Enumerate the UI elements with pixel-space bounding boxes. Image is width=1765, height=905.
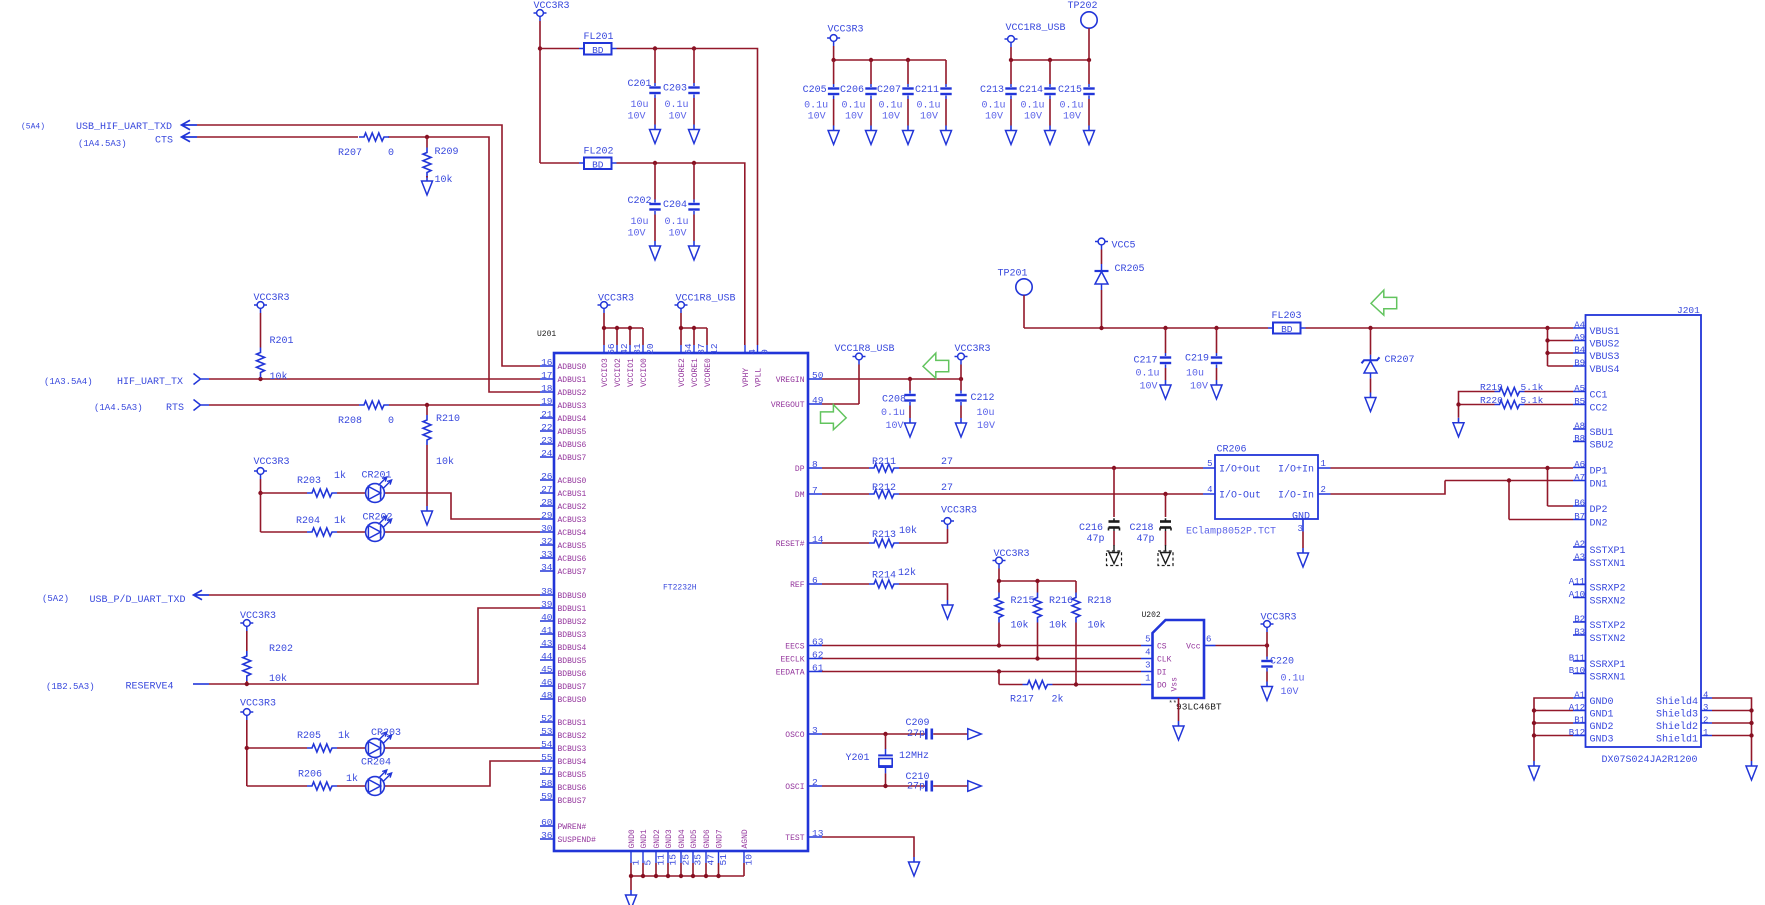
wire net EECS from U201 pin 63 to U202 CS — [822, 645, 1141, 647]
svg-text:1k: 1k — [346, 773, 358, 785]
svg-text:CR202: CR202 — [363, 513, 393, 524]
power symbol VCC3R3 above C205 group — [827, 35, 840, 46]
resistor R217 — [999, 672, 1141, 685]
svg-text:1: 1 — [1703, 728, 1708, 738]
ground below TEST — [909, 857, 920, 876]
svg-text:GND4: GND4 — [678, 829, 687, 848]
svg-text:56: 56 — [606, 343, 617, 355]
svg-text:29: 29 — [541, 510, 553, 521]
svg-text:ACBUS6: ACBUS6 — [558, 555, 587, 564]
svg-text:C219: C219 — [1185, 354, 1209, 365]
capacitor C209 — [926, 729, 932, 740]
svg-text:0: 0 — [388, 416, 394, 427]
svg-text:10u: 10u — [1186, 369, 1204, 380]
nodes on pullup rail — [997, 579, 1001, 583]
svg-text:BDBUS6: BDBUS6 — [558, 670, 587, 679]
svg-text:B1: B1 — [1574, 715, 1585, 725]
svg-text:BCBUS0: BCBUS0 — [558, 696, 587, 705]
nodes on ground bus — [629, 874, 633, 878]
svg-text:VBUS2: VBUS2 — [1590, 340, 1620, 351]
svg-text:VCC3R3: VCC3R3 — [828, 25, 864, 36]
svg-text:EEDATA: EEDATA — [776, 669, 805, 678]
wire net OSCO from U201 pin 3 — [822, 733, 968, 735]
wire CR206 GND pin to ground — [1302, 532, 1304, 549]
svg-text:21: 21 — [541, 409, 553, 420]
svg-text:R217: R217 — [1010, 695, 1034, 706]
power symbol VCC1R8_USB above VCORE pins — [675, 302, 688, 313]
nodes on VBUS line — [1099, 326, 1103, 330]
resistor R209 — [426, 137, 428, 148]
power symbol VCC5 — [1095, 238, 1108, 249]
svg-text:8: 8 — [812, 459, 818, 470]
svg-text:USB_HIF_UART_TXD: USB_HIF_UART_TXD — [76, 122, 172, 133]
svg-text:4: 4 — [1703, 690, 1708, 700]
U202 pin stubs left — [1141, 646, 1153, 685]
svg-text:SSTXP1: SSTXP1 — [1590, 546, 1626, 557]
svg-text:I/O+In: I/O+In — [1278, 464, 1314, 476]
svg-text:A12: A12 — [1569, 703, 1585, 713]
ESD clamp CR206 EClamp8052P.TCT — [1215, 455, 1318, 519]
connector J201 DX07S024JA2R1200 body — [1586, 315, 1702, 747]
node CC1/CC2 ground junction — [1456, 402, 1460, 406]
U201 bottom pin stubs — [631, 851, 744, 863]
svg-text:DO: DO — [1157, 682, 1167, 691]
svg-text:CTS: CTS — [155, 136, 173, 147]
svg-text:VBUS3: VBUS3 — [1590, 352, 1620, 363]
svg-text:12MHz: 12MHz — [899, 751, 929, 762]
off-page arrow CTS — [182, 132, 198, 141]
svg-text:SSRXP2: SSRXP2 — [1590, 584, 1626, 595]
svg-text:0.1u: 0.1u — [981, 101, 1005, 112]
svg-text:DM: DM — [795, 491, 805, 500]
svg-text:DP1: DP1 — [1590, 467, 1608, 478]
svg-text:10V: 10V — [1063, 112, 1081, 123]
svg-text:BCBUS1: BCBUS1 — [558, 719, 587, 728]
power symbol VCC3R3 above R213 — [941, 518, 954, 529]
power symbol VCC1R8_USB above VREGOUT — [853, 353, 866, 364]
svg-text:VCC3R3: VCC3R3 — [254, 457, 290, 468]
wire net through R206 CR204 to U201 pin 55 — [247, 761, 540, 786]
svg-text:R204: R204 — [296, 516, 320, 527]
svg-text:R215: R215 — [1011, 596, 1035, 607]
svg-text:VCC1R8_USB: VCC1R8_USB — [676, 294, 736, 305]
wire VCC3R3 to R205/R206 — [246, 720, 248, 786]
svg-text:VCC3R3: VCC3R3 — [240, 611, 276, 622]
svg-text:10V: 10V — [1139, 382, 1157, 393]
svg-text:58: 58 — [541, 778, 553, 789]
wire net REF from U201 pin 6 through R214 to ground — [822, 584, 948, 600]
svg-text:30: 30 — [541, 523, 553, 534]
wire net RESET# from U201 pin 14 through R213 to VCC3R3 — [822, 529, 948, 543]
svg-text:TP201: TP201 — [998, 269, 1028, 280]
svg-text:5: 5 — [1145, 635, 1150, 645]
svg-text:EECS: EECS — [785, 643, 804, 652]
svg-text:(1B2.5A3): (1B2.5A3) — [46, 682, 95, 692]
svg-text:33: 33 — [541, 549, 553, 560]
svg-text:CR203: CR203 — [371, 728, 401, 739]
wire net VBUS: TP201 through FL203 to J201 VBUS pins — [1024, 295, 1573, 328]
svg-text:ADBUS5: ADBUS5 — [558, 428, 587, 437]
svg-text:0.1u: 0.1u — [881, 408, 905, 419]
svg-text:C215: C215 — [1058, 85, 1082, 96]
svg-text:DN1: DN1 — [1590, 480, 1608, 491]
node C202 C204 junctions on FL202 net — [653, 161, 657, 165]
svg-text:41: 41 — [541, 625, 553, 636]
svg-text:CC1: CC1 — [1590, 391, 1608, 402]
svg-text:Vss: Vss — [1171, 677, 1180, 692]
svg-text:A2: A2 — [1574, 539, 1585, 549]
resistor R213 — [869, 539, 899, 547]
wire net VPLL-filter: FL201 output to U201 VPLL pin 9 — [540, 49, 758, 346]
capacitor C216 (DNI) — [1113, 468, 1115, 517]
svg-text:7: 7 — [812, 485, 818, 496]
svg-text:38: 38 — [541, 586, 553, 597]
svg-text:10k: 10k — [1011, 620, 1029, 632]
svg-text:19: 19 — [541, 396, 553, 407]
wire VCC3R3 to R203/R204 — [260, 479, 262, 532]
svg-text:EClamp8052P.TCT: EClamp8052P.TCT — [1186, 526, 1276, 538]
LED CR202 — [366, 516, 392, 541]
svg-text:B7: B7 — [1574, 512, 1585, 522]
svg-text:BDBUS5: BDBUS5 — [558, 657, 587, 666]
svg-text:CR206: CR206 — [1217, 445, 1247, 456]
svg-text:CR204: CR204 — [361, 758, 391, 769]
svg-text:37: 37 — [696, 343, 707, 354]
off-page arrow at VREGIN (left) — [923, 353, 949, 378]
wire net EEDATA from U201 pin 61 to U202 DI — [822, 671, 1141, 673]
nodes on VBUS branch — [1545, 338, 1549, 342]
svg-text:AGND: AGND — [741, 829, 750, 848]
node DP1/DP2 junction — [1545, 466, 1549, 470]
svg-text:6: 6 — [1206, 635, 1211, 645]
svg-text:GND6: GND6 — [703, 829, 712, 848]
resistor R205 — [307, 744, 337, 752]
capacitor C219 — [1216, 328, 1218, 353]
svg-text:VCC1R8_USB: VCC1R8_USB — [1006, 23, 1066, 34]
svg-text:VCC3R3: VCC3R3 — [534, 1, 570, 12]
svg-text:10V: 10V — [1024, 112, 1042, 123]
svg-text:VCCIO2: VCCIO2 — [614, 358, 623, 387]
svg-text:10V: 10V — [885, 421, 903, 432]
svg-text:C203: C203 — [663, 84, 687, 95]
svg-text:10V: 10V — [627, 112, 645, 123]
ground below C206 — [866, 126, 877, 145]
svg-text:Shield2: Shield2 — [1656, 721, 1698, 733]
svg-text:27: 27 — [941, 483, 953, 494]
svg-text:C206: C206 — [840, 85, 864, 96]
svg-text:GND: GND — [1292, 512, 1310, 523]
ground below C219 — [1211, 380, 1222, 399]
wire net USB_HIF_UART_TXD to U201 pin 16 — [197, 125, 540, 366]
power symbol VCC1R8_USB above C213 group — [1005, 36, 1018, 47]
node C218 junction on DM — [1163, 492, 1167, 496]
nodes C208 C212 junctions — [908, 377, 912, 381]
svg-text:A1: A1 — [1574, 690, 1585, 700]
svg-text:B4: B4 — [1574, 345, 1585, 355]
svg-text:60: 60 — [541, 817, 553, 828]
wire net EECLK from U201 pin 62 to U202 CLK — [822, 658, 1141, 660]
ground below R210 — [422, 506, 433, 525]
wire net CTS from R207 to U201 pin 18 — [197, 137, 540, 392]
power symbol VCC3R3 above R201 — [254, 302, 267, 313]
svg-text:10u: 10u — [630, 100, 648, 111]
svg-text:CLK: CLK — [1157, 656, 1172, 665]
svg-text:C208: C208 — [882, 395, 906, 406]
svg-text:57: 57 — [541, 765, 552, 776]
node R203 junction — [258, 491, 262, 495]
svg-text:10V: 10V — [627, 229, 645, 240]
svg-text:R207: R207 — [338, 148, 362, 159]
nodes on VCCIO rail — [602, 326, 606, 330]
svg-text:SUSPEND#: SUSPEND# — [558, 836, 597, 845]
svg-text:27p: 27p — [907, 782, 925, 793]
node Y201/OSCI junction — [883, 784, 887, 788]
ground below R209 — [422, 176, 433, 195]
node R218/DO junction — [1074, 682, 1078, 686]
svg-text:VREGIN: VREGIN — [776, 376, 805, 385]
svg-text:EECLK: EECLK — [780, 656, 804, 665]
svg-text:1: 1 — [631, 860, 642, 866]
wire net DM from U201 pin 7 through R212 to CR206 pin 4 — [822, 493, 1203, 495]
wire VCC1R8_USB to U201 VREGOUT pin 49 — [822, 365, 859, 405]
ground below C203 — [689, 125, 700, 144]
svg-text:B2: B2 — [1574, 614, 1585, 624]
ground below CR207 — [1365, 393, 1376, 412]
ground below C205 — [828, 126, 839, 145]
svg-text:R210: R210 — [436, 414, 460, 425]
svg-text:OSCO: OSCO — [785, 731, 804, 740]
svg-text:51: 51 — [718, 854, 729, 866]
svg-text:SSRXN2: SSRXN2 — [1590, 597, 1626, 608]
svg-text:VCC3R3: VCC3R3 — [254, 293, 290, 304]
CR206 pin stubs — [1203, 468, 1331, 532]
capacitor C214 — [1049, 60, 1051, 84]
node C216 junction on DP — [1112, 466, 1116, 470]
svg-text:ADBUS7: ADBUS7 — [558, 454, 587, 463]
svg-text:4: 4 — [747, 349, 758, 355]
svg-text:ACBUS3: ACBUS3 — [558, 516, 587, 525]
svg-text:GND0: GND0 — [628, 829, 637, 848]
svg-text:PWREN#: PWREN# — [558, 823, 587, 832]
resistor R215 — [995, 593, 1003, 623]
svg-text:10u: 10u — [977, 408, 995, 419]
svg-text:10V: 10V — [1281, 687, 1299, 698]
svg-text:BD: BD — [1281, 324, 1293, 335]
input chevron RTS — [194, 400, 210, 411]
svg-text:35: 35 — [693, 854, 704, 866]
svg-text:20: 20 — [645, 343, 656, 355]
svg-text:B11: B11 — [1569, 653, 1585, 663]
svg-text:4: 4 — [1207, 485, 1212, 495]
svg-text:47: 47 — [706, 854, 717, 865]
svg-text:C211: C211 — [915, 85, 939, 96]
svg-text:44: 44 — [541, 651, 553, 662]
svg-text:R209: R209 — [435, 147, 459, 158]
svg-text:A11: A11 — [1569, 577, 1585, 587]
svg-text:REF: REF — [790, 581, 805, 590]
svg-text:(5A2): (5A2) — [42, 594, 69, 604]
svg-text:GND3: GND3 — [665, 829, 674, 848]
svg-text:39: 39 — [541, 599, 553, 610]
svg-text:VCC3R3: VCC3R3 — [598, 294, 634, 305]
svg-text:GND5: GND5 — [690, 829, 699, 848]
svg-text:BCBUS7: BCBUS7 — [558, 797, 587, 806]
svg-text:VBUS4: VBUS4 — [1590, 365, 1620, 376]
ground below C218 (DNI) — [1158, 545, 1173, 566]
svg-text:GND2: GND2 — [653, 829, 662, 848]
svg-text:VCORE2: VCORE2 — [678, 358, 687, 387]
svg-text:R214: R214 — [872, 571, 896, 582]
svg-text:U201: U201 — [537, 330, 556, 339]
svg-text:10k: 10k — [435, 174, 453, 186]
svg-text:49: 49 — [812, 395, 824, 406]
svg-text:R218: R218 — [1088, 596, 1112, 607]
svg-text:VCC3R3: VCC3R3 — [994, 549, 1030, 560]
svg-text:1: 1 — [1145, 674, 1150, 684]
ground below U202 — [1173, 721, 1184, 740]
capacitor C201 — [654, 49, 656, 84]
svg-text:U202: U202 — [1142, 611, 1161, 620]
svg-text:GND1: GND1 — [640, 829, 649, 848]
svg-text:CR207: CR207 — [1385, 355, 1415, 366]
svg-text:10k: 10k — [270, 371, 288, 383]
svg-text:A7: A7 — [1574, 473, 1585, 483]
crystal Y201 — [885, 734, 887, 749]
LED CR204 — [366, 770, 392, 795]
svg-text:4: 4 — [1145, 648, 1150, 658]
svg-text:(1A3.5A4): (1A3.5A4) — [44, 377, 93, 387]
svg-text:RTS: RTS — [166, 403, 184, 414]
svg-text:28: 28 — [541, 497, 553, 508]
svg-text:R205: R205 — [297, 731, 321, 742]
wire net RXLED through R204 CR202 to U201 pin 30 — [261, 531, 541, 533]
ferrite bead FL201 — [579, 48, 617, 50]
svg-text:CS: CS — [1157, 643, 1167, 652]
ground below CR206 — [1298, 548, 1309, 567]
svg-text:GND1: GND1 — [1590, 710, 1614, 721]
off-page arrow at VREGOUT (right) — [821, 405, 847, 430]
off-page arrow USB_HIF_UART_TXD — [182, 120, 198, 129]
svg-text:VBUS1: VBUS1 — [1590, 327, 1620, 338]
svg-text:BCBUS5: BCBUS5 — [558, 771, 587, 780]
svg-text:0: 0 — [388, 148, 394, 159]
svg-text:VREGOUT: VREGOUT — [771, 401, 805, 410]
svg-text:B12: B12 — [1569, 728, 1585, 738]
wire net DN1 from CR206 pin 2 to J201 A7 and B7 — [1331, 481, 1574, 520]
svg-text:Y201: Y201 — [845, 753, 869, 764]
svg-text:VCORE0: VCORE0 — [704, 358, 713, 387]
svg-text:ACBUS0: ACBUS0 — [558, 477, 587, 486]
wire net CC2 through R220 to ground — [1459, 405, 1574, 418]
svg-text:55: 55 — [541, 752, 553, 763]
svg-text:R216: R216 — [1049, 596, 1073, 607]
node DN1/DN2 junction — [1507, 478, 1511, 482]
svg-text:10V: 10V — [920, 112, 938, 123]
svg-text:VCC3R3: VCC3R3 — [240, 699, 276, 710]
svg-text:VCC1R8_USB: VCC1R8_USB — [835, 344, 895, 355]
svg-text:10k: 10k — [436, 456, 454, 468]
svg-text:34: 34 — [541, 562, 553, 573]
svg-text:TP202: TP202 — [1068, 1, 1098, 12]
capacitor C213 — [1010, 60, 1012, 84]
node R201 junction — [258, 377, 262, 381]
svg-text:10V: 10V — [1190, 382, 1208, 393]
svg-text:ACBUS5: ACBUS5 — [558, 542, 587, 551]
svg-text:BDBUS2: BDBUS2 — [558, 618, 587, 627]
svg-text:0.1u: 0.1u — [841, 101, 865, 112]
J201 left pin stubs — [1573, 328, 1586, 736]
svg-text:B5: B5 — [1574, 397, 1585, 407]
svg-text:14: 14 — [812, 534, 824, 545]
svg-text:GND3: GND3 — [1590, 735, 1614, 746]
ground below C202 — [650, 241, 661, 260]
svg-text:32: 32 — [541, 536, 553, 547]
svg-text:5.1k: 5.1k — [1521, 382, 1544, 393]
svg-text:ADBUS3: ADBUS3 — [558, 402, 587, 411]
svg-text:SBU2: SBU2 — [1590, 441, 1614, 452]
svg-text:R208: R208 — [338, 416, 362, 427]
off-page arrow USB_P/D_UART_TXD — [194, 590, 210, 599]
svg-text:0.1u: 0.1u — [664, 217, 688, 228]
svg-text:0.1u: 0.1u — [664, 100, 688, 111]
svg-text:VPHY: VPHY — [742, 368, 751, 387]
no-connect arrow OSCI — [968, 781, 981, 792]
svg-text:53: 53 — [541, 726, 553, 737]
svg-text:R211: R211 — [872, 457, 896, 468]
svg-text:I/O-Out: I/O-Out — [1219, 490, 1261, 502]
svg-text:15: 15 — [668, 854, 679, 866]
svg-text:C202: C202 — [627, 196, 651, 207]
node Y201/OSCO junction — [883, 732, 887, 736]
svg-text:17: 17 — [541, 370, 552, 381]
svg-text:ACBUS4: ACBUS4 — [558, 529, 587, 538]
svg-text:FL203: FL203 — [1272, 311, 1302, 322]
svg-text:GND0: GND0 — [1590, 697, 1614, 708]
svg-text:27: 27 — [541, 484, 552, 495]
svg-text:22: 22 — [541, 422, 553, 433]
node FL201 input junction — [538, 46, 542, 50]
svg-text:10V: 10V — [668, 229, 686, 240]
nodes on shield branch — [1749, 708, 1753, 712]
svg-text:C204: C204 — [663, 200, 687, 211]
wire J201 shield pins to ground — [1712, 698, 1752, 761]
svg-text:27p: 27p — [907, 729, 925, 740]
power symbol VCC3R3 above FL201 — [534, 10, 547, 21]
svg-text:10V: 10V — [882, 112, 900, 123]
capacitor C218 (DNI) — [1165, 494, 1167, 517]
svg-text:5: 5 — [643, 860, 654, 866]
ferrite bead FL202 — [579, 162, 617, 164]
wire VCC3R3 bypass rail — [834, 46, 946, 84]
svg-text:B8: B8 — [1574, 434, 1585, 444]
svg-text:45: 45 — [541, 664, 553, 675]
svg-text:FL202: FL202 — [584, 147, 614, 158]
svg-text:R212: R212 — [872, 483, 896, 494]
svg-text:62: 62 — [812, 650, 824, 661]
svg-text:DX07S024JA2R1200: DX07S024JA2R1200 — [1602, 755, 1698, 766]
svg-text:J201: J201 — [1677, 305, 1700, 316]
ground below J201 GND pins — [1529, 761, 1540, 780]
svg-text:VCC5: VCC5 — [1112, 241, 1136, 252]
svg-text:93LC46BT: 93LC46BT — [1176, 702, 1222, 713]
power symbol VCC3R3 above R202 — [240, 620, 253, 631]
svg-text:46: 46 — [541, 677, 553, 688]
svg-text:A9: A9 — [1574, 333, 1585, 343]
ground below shield pins — [1746, 761, 1757, 780]
svg-text:VCCIO1: VCCIO1 — [627, 358, 636, 387]
capacitor C206 — [870, 60, 872, 84]
nodes on VCORE rail — [679, 326, 683, 330]
